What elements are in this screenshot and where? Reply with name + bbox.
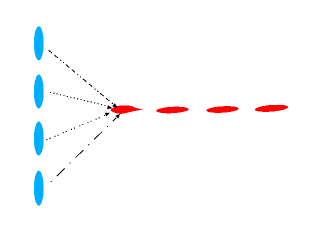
node moving-ellipse-3 (red) <box>254 104 288 113</box>
wire line-4 (long dash-dot from ellipse 4) <box>51 118 117 182</box>
wire line-2 (dotted from ellipse 2) <box>50 92 108 106</box>
wire line-1 (dash-dash-dot-dot from ellipse 1) <box>49 50 114 104</box>
node source-ellipse-1 (cyan) <box>34 26 44 60</box>
node moving-ellipse-2 (red) <box>206 105 239 113</box>
arrowhead of line-3 <box>105 113 110 117</box>
wire line-3 (paired dots from ellipse 3) <box>46 115 106 140</box>
node source-ellipse-3 (cyan) <box>34 122 44 156</box>
node source-ellipse-4 (cyan) <box>34 171 44 206</box>
node source-ellipse-2 (cyan) <box>34 75 44 109</box>
arrowhead of line-4 <box>115 114 120 119</box>
node moving-ellipse-1 (red) <box>156 106 189 114</box>
arrowhead of line-2 <box>107 105 112 109</box>
arrowhead of line-1 <box>112 103 117 108</box>
node collision-ellipse (red, with pointed tail) <box>111 105 144 113</box>
